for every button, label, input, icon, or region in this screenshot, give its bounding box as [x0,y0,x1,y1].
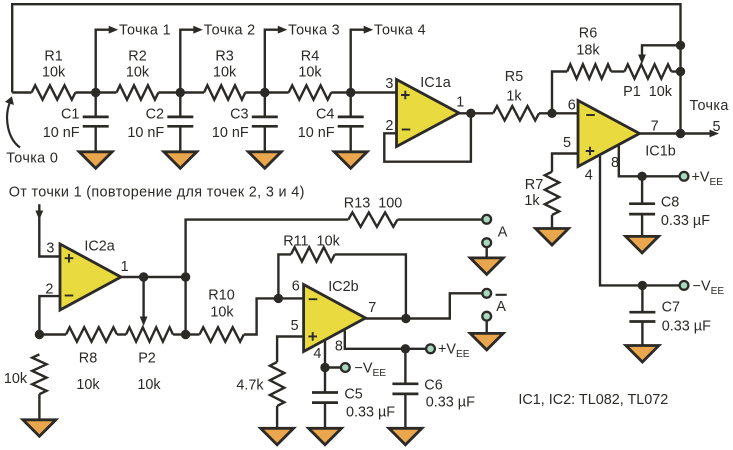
op-amp IC2b minus [309,298,318,300]
wire C5 stems [324,368,326,430]
ground R7 [536,229,569,246]
label +VEE IC2b [438,342,470,361]
op-amp IC1b plus [586,147,595,156]
label R6 value [576,43,600,59]
resistor 4.7k [270,362,284,406]
svg-text:5: 5 [291,318,299,334]
wire IC1b pin5 to R7 [552,154,578,172]
svg-text:R5: R5 [505,69,523,85]
wire C6 stems [404,349,406,430]
wire C1 stem [94,93,96,153]
label R1 value [42,65,66,81]
node 2 [176,88,185,97]
label IC1b pin 6 [568,98,576,114]
svg-text:7: 7 [368,300,376,316]
svg-text:10k: 10k [137,377,161,393]
svg-text:P1 10k: P1 10k [623,84,673,100]
wire R8 to P2 [117,333,126,335]
svg-text:10 nF: 10 nF [127,125,164,141]
svg-text:C6: C6 [424,377,442,393]
svg-text:3: 3 [385,76,393,92]
terminal +VEE IC1b [680,172,689,181]
label C6 value [426,395,475,411]
label IC2b pin 6 [292,278,300,294]
arrow input down [35,211,43,221]
svg-text:10k: 10k [126,65,150,81]
wire tap to Точка 1 [96,30,110,93]
svg-text:IC1, IC2: TL082, TL072: IC1, IC2: TL082, TL072 [518,392,668,408]
svg-text:1k: 1k [524,193,540,209]
svg-text:0.33 µF: 0.33 µF [662,319,711,335]
svg-text:От точки 1 (повторение для точ: От точки 1 (повторение для точек 2, 3 и … [9,185,305,201]
op-amp IC1a [397,80,460,147]
op-amp IC1a plus [401,91,410,100]
node IC2b pin6 junction [274,294,283,303]
ground C7 [626,346,659,363]
node pin8 VEE junction [637,172,646,181]
label C2 value [127,125,164,141]
svg-text:Точка 3: Точка 3 [288,22,340,38]
resistor R11 [291,247,335,261]
svg-text:C5: C5 [344,386,362,402]
label IC1b pin 4 [585,168,593,184]
label R1 [44,49,62,65]
terminal A ground side [482,238,491,247]
wire IC1b output to Точка 5 [640,132,712,134]
label Точка 1 [119,22,171,38]
label IC1a pin 3 [385,76,393,92]
svg-text:6: 6 [568,98,576,114]
node 4 [346,88,355,97]
wire C2 stem [179,93,181,153]
resistor R13 [348,212,397,226]
label Точка 4 [374,22,426,38]
op-amp IC1b [578,101,640,167]
svg-text:IC2a: IC2a [84,239,114,255]
label P2 [138,351,156,367]
svg-text:4: 4 [585,168,593,184]
label +VEE IC1b [692,169,724,188]
svg-text:IC1a: IC1a [420,75,450,91]
label IC types note [518,392,668,408]
wire A ground stem [486,247,488,259]
wire IC2a feedback [39,296,60,334]
label R4 [301,49,319,65]
label От точки 1 [9,185,305,201]
wire input from point 1 [39,204,60,256]
resistor R8 [66,327,117,341]
label C8 [661,195,679,211]
wire R5 to IC1b pin6 [539,112,578,114]
terminal -VEE IC1b [680,281,689,290]
arrow P1 wiper [638,55,646,65]
label IC1a pin 2 [385,118,393,134]
svg-text:4.7k: 4.7k [236,378,264,394]
ground C1 [79,152,112,169]
label IC2b pin 5 [291,318,299,334]
svg-text:18k: 18k [576,43,600,59]
wire ladder axis segment 2 [158,91,204,93]
label -VEE IC1b [693,278,725,297]
wire R6 to P1 [611,70,624,72]
svg-text:10k: 10k [298,65,322,81]
svg-text:Точка 2: Точка 2 [204,22,256,38]
wire P2 right lead [173,333,186,335]
svg-text:IC1b: IC1b [645,144,675,160]
wire R8 left lead [39,333,66,335]
svg-text:4: 4 [313,346,321,362]
op-amp IC1b minus [586,114,595,116]
svg-text:Точка 4: Точка 4 [374,22,426,38]
label C7 value [662,319,711,335]
node IC2b output [401,314,410,323]
node pin4 VEE junction [638,281,647,290]
capacitor C6 [392,384,418,394]
ground C6 [389,428,422,445]
svg-text:10 nF: 10 nF [212,125,249,141]
wire R11 branch [278,254,291,298]
svg-text:0.33 µF: 0.33 µF [661,213,710,229]
label R4 value [298,65,322,81]
label C4 [316,106,334,122]
svg-text:5: 5 [712,119,720,135]
arrow Точка 3 [278,26,288,34]
terminal -VEE IC2b [341,363,350,372]
label R2 value [126,65,150,81]
ground C5 [309,428,342,445]
ground R9 [23,420,56,437]
label P1 value [623,84,673,100]
label Точка 0 [6,150,58,166]
label IC2a [84,239,114,255]
svg-text:C8: C8 [661,195,679,211]
label C4 value [298,125,335,141]
label Точка 5 line1 [690,98,729,114]
label R8 [79,351,97,367]
node rail top [676,41,685,50]
potentiometer P2 [126,327,173,341]
ground A [470,258,503,275]
capacitor C3 [252,117,278,126]
resistor R9 10k [32,354,46,394]
arrow output Точка 5 [710,130,720,138]
node 1 [91,88,100,97]
svg-text:Точка 0: Точка 0 [6,150,58,166]
wire IC2b pin8 to +VEE [345,331,426,349]
svg-text:R11 10k: R11 10k [283,234,340,250]
label IC2b [328,279,358,295]
wire IC1a output [459,112,493,114]
label 4.7k value [236,378,264,394]
wire P1 wiper [642,45,681,56]
capacitor C8 [629,204,655,214]
wire 4.7k to ground [276,406,278,430]
wire C3 stem [264,93,266,153]
terminal +VEE IC2b [426,344,435,353]
op-amp IC2b plus [308,332,317,341]
label IC1b pin 5 [563,135,571,151]
svg-text:6: 6 [292,278,300,294]
op-amp IC2a [60,244,121,310]
ground C8 [626,236,659,253]
svg-text:3: 3 [46,241,54,257]
label IC2b pin 8 [335,339,343,355]
svg-text:10 nF: 10 nF [298,125,335,141]
svg-text:R8: R8 [79,351,97,367]
svg-text:C3: C3 [230,106,248,122]
label R3 [215,49,233,65]
wire ladder axis segment 3 [245,91,288,93]
wire IC2b pin4 to -VEE [325,341,341,368]
svg-text:7: 7 [651,119,659,135]
node IC2a output B1 [181,272,190,281]
node IC2a output A1 [139,272,148,281]
label R9 value [4,371,28,387]
terminal A-bar ground side [482,312,491,321]
svg-text:10k: 10k [4,371,28,387]
svg-text:10k: 10k [76,377,100,393]
svg-text:10k: 10k [213,65,237,81]
label C5 [344,386,362,402]
svg-text:10k: 10k [210,304,234,320]
label IC2a pin 1 [121,259,129,275]
wire IC2b output to A-bar [366,293,483,318]
label C5 value [346,405,395,421]
svg-text:Точка 1: Точка 1 [119,22,171,38]
resistor R1 [32,85,76,99]
svg-text:0.33 µF: 0.33 µF [346,405,395,421]
op-amp IC2a minus [65,295,74,297]
svg-text:1k: 1k [506,89,522,105]
node P2 right junction [181,330,190,339]
wire top feedback loop from Точка 0 to P1 network [12,4,680,133]
svg-text:R1: R1 [44,49,62,65]
node IC1a output [466,109,475,118]
arrow Точка 1 [109,26,119,34]
node R5 right junction [547,109,556,118]
wire ladder axis segment 4 to IC1a [331,91,396,93]
node pin4 junction [320,363,329,372]
wire C4 stem [350,93,352,153]
wire P2 wiper [142,277,144,318]
wire R13 to A [397,218,482,220]
terminal A [482,215,491,224]
svg-text:P2: P2 [138,351,156,367]
label IC2a pin 2 [45,282,53,298]
ground C2 [164,152,197,169]
label R5 value [506,89,522,105]
label C6 [424,377,442,393]
svg-text:R10: R10 [208,288,234,304]
capacitor C1 [83,117,109,126]
wire P1 to right rail [671,70,680,72]
node 3 [260,88,269,97]
wire R10 to IC2b pin6 [244,298,304,334]
svg-text:R3: R3 [215,49,233,65]
node output rail [676,129,685,138]
svg-text:R6: R6 [579,26,597,42]
label P2 value [137,377,161,393]
wire ladder axis segment 0 [12,91,31,93]
label C7 [662,300,680,316]
resistor R6 [567,64,611,78]
wire R10 left lead [186,333,200,335]
label C8 value [661,213,710,229]
label IC2a pin 3 [46,241,54,257]
arrow P2 wiper [140,317,148,327]
svg-text:R7: R7 [525,177,543,193]
arrow Точка 2 [193,26,203,34]
capacitor C7 [629,312,655,321]
svg-text:Точка: Точка [690,98,729,114]
resistor R2 [117,85,159,99]
label IC1b pin 7 [651,119,659,135]
capacitor C2 [167,117,193,126]
svg-text:C2: C2 [146,106,164,122]
label IC2b pin 4 [313,346,321,362]
op-amp IC2a plus [65,254,74,263]
ground A-bar [470,333,503,350]
svg-text:IC2b: IC2b [328,279,358,295]
op-amp IC1a minus [402,129,411,131]
label R8 value [76,377,100,393]
resistor R4 [289,85,332,99]
wire IC2b pin5 to 4.7k [277,337,304,363]
svg-text:2: 2 [385,118,393,134]
svg-text:5: 5 [563,135,571,151]
resistor R5 [493,106,539,120]
resistor R10 [200,327,244,341]
wire B1 riser to R13 line [186,220,349,335]
wire IC1b pin4 to -VEE [600,156,680,285]
svg-text:C7: C7 [662,300,680,316]
arrow Точка 4 [364,26,374,34]
label Точка 2 [204,22,256,38]
label IC1b [645,144,675,160]
label A [498,225,508,241]
svg-text:C1: C1 [61,106,79,122]
arrow Точка 0 curved pointer [5,96,20,147]
wire R7 to ground [551,215,553,230]
label C3 [230,106,248,122]
svg-text:R13 100: R13 100 [344,195,402,211]
capacitor C5 [312,393,338,403]
wire tap to Точка 4 [351,30,365,93]
wire IC1a feedback [384,113,471,161]
wire tap to Точка 3 [265,30,279,93]
node pin8 junction [401,344,410,353]
resistor R3 [204,85,245,99]
label IC1a [420,75,450,91]
wire IC1b pin8 to +VEE [619,146,680,177]
svg-text:A: A [496,299,506,315]
label C2 [146,106,164,122]
label R3 value [213,65,237,81]
ground C4 [334,152,367,169]
resistor R7 [545,172,559,215]
svg-text:R4: R4 [301,49,319,65]
label C1 value [43,125,80,141]
label R7 value [524,193,540,209]
op-amp IC2b [304,285,366,352]
svg-text:R2: R2 [128,49,146,65]
svg-text:10 nF: 10 nF [43,125,80,141]
label R2 [128,49,146,65]
wire A-bar ground stem [486,321,488,335]
svg-text:8: 8 [335,339,343,355]
svg-text:1: 1 [121,259,129,275]
capacitor C4 [338,117,364,126]
svg-text:0.33 µF: 0.33 µF [426,395,475,411]
wire junction up to R6 [552,72,567,114]
label R7 [525,177,543,193]
svg-text:1: 1 [456,95,464,111]
wire C8 stems [641,176,643,237]
ground 4.7k [261,428,294,445]
wire tap to Точка 2 [180,30,194,93]
wire R9 to ground [38,394,40,421]
svg-text:A: A [498,225,508,241]
label R13 [344,195,402,211]
svg-text:C4: C4 [316,106,334,122]
label R10 [208,288,234,304]
label R5 [505,69,523,85]
svg-text:10k: 10k [42,65,66,81]
label IC2b pin 7 [368,300,376,316]
label C1 [61,106,79,122]
label Точка 5 line2 [712,119,720,135]
wire C7 stems [641,285,643,346]
label Точка 3 [288,22,340,38]
label IC1b pin 8 [611,155,619,171]
terminal A-bar [482,289,491,298]
potentiometer P1 [625,64,672,78]
label R11 [283,234,340,250]
label R6 [579,26,597,42]
label C3 value [212,125,249,141]
wire IC2a output [121,276,186,278]
ground C3 [248,152,281,169]
label -VEE IC2b [355,360,387,379]
wire ladder axis segment 1 [75,91,116,93]
node R8 left junction [35,330,44,339]
label A-bar [496,295,507,315]
wire R11 to output [335,254,406,318]
label R10 value [210,304,234,320]
node rail mid [676,67,685,76]
label IC1a pin 1 [456,95,464,111]
